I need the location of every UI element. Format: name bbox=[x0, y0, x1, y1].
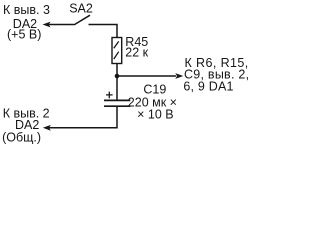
svg-text:22 к: 22 к bbox=[125, 46, 148, 60]
wire: junction down to capacitor bbox=[116, 76, 118, 100]
svg-text:× 10 В: × 10 В bbox=[137, 108, 174, 122]
wire: resistor bottom to junction bbox=[116, 64, 118, 77]
junction node bbox=[115, 74, 120, 79]
wire: arrow to R6, R15, C9 bbox=[117, 73, 183, 79]
capacitor C19 bbox=[104, 100, 130, 106]
node: to pin 2 of DA2 (common) label bbox=[2, 107, 50, 145]
node: to pin 3 of DA2 (+5 V) label bbox=[3, 3, 50, 41]
label R45 value bbox=[125, 35, 148, 60]
svg-text:6, 9 DA1: 6, 9 DA1 bbox=[183, 79, 233, 93]
wire: arrow toward DA2 pin 3 bbox=[43, 22, 75, 28]
label C19 value bbox=[128, 82, 177, 121]
svg-text:SA2: SA2 bbox=[69, 2, 93, 16]
svg-text:C19: C19 bbox=[143, 82, 166, 96]
capacitor C19 polarity plus bbox=[106, 92, 113, 99]
svg-text:К выв. 3: К выв. 3 bbox=[3, 3, 50, 17]
resistor R45 bbox=[112, 38, 122, 64]
wire: switch right contact to resistor top bbox=[89, 25, 118, 38]
svg-text:(+5 В): (+5 В) bbox=[7, 28, 41, 42]
node: to R6 R15 C9 DA1 label bbox=[183, 56, 249, 94]
wire: capacitor bottom to arrow toward DA2 pin 2 bbox=[43, 107, 117, 131]
svg-text:(Общ.): (Общ.) bbox=[2, 130, 41, 144]
switch SA2 lever bbox=[74, 15, 90, 25]
